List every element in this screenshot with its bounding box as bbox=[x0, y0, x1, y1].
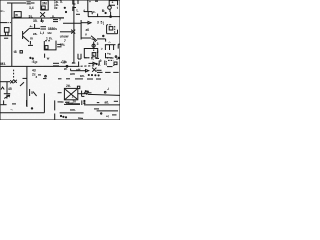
junction dot bbox=[110, 16, 112, 18]
dots bbox=[84, 93, 87, 95]
wire vertical x54.6 lower bbox=[54, 114, 56, 121]
bottom bus mid bold bbox=[60, 112, 84, 114]
dash bbox=[38, 74, 41, 76]
mid rail y104.8 right bbox=[84, 104, 120, 106]
lamp DS2 bbox=[92, 44, 95, 47]
capacitor C4 bbox=[28, 41, 33, 45]
dash bbox=[110, 57, 114, 59]
mark right edge pins bbox=[118, 44, 120, 48]
svg-text:t8: t8 bbox=[14, 50, 17, 54]
battery hook bbox=[115, 30, 118, 34]
svg-text:+: + bbox=[112, 1, 114, 5]
wire y23.2 center bbox=[63, 22, 81, 24]
wire center horizontal y17.8 bbox=[50, 17, 64, 19]
capacitor C6 trimmer bbox=[4, 94, 10, 99]
dot bbox=[45, 75, 47, 77]
wire horizontal junction bbox=[84, 11, 92, 13]
wire stub y22.5 bbox=[0, 22, 7, 24]
curve to switch bbox=[92, 39, 96, 42]
wire tick x99 bbox=[98, 61, 100, 66]
dashed rail right y72.3 bbox=[97, 71, 120, 73]
svg-text:M3.: M3. bbox=[1, 62, 7, 66]
arrow marks above dashed rail bbox=[89, 62, 98, 64]
wire horizontal rail y18 bbox=[12, 17, 64, 19]
bottom rail right y110.8 bbox=[97, 110, 118, 112]
svg-text:a0.: a0. bbox=[105, 101, 110, 105]
wire stub to bus bbox=[78, 62, 80, 67]
dash bbox=[88, 92, 92, 94]
ground bus dotted extension bbox=[81, 65, 96, 67]
dot bbox=[31, 108, 32, 109]
dot bbox=[101, 113, 102, 114]
blob c bbox=[20, 51, 22, 53]
wire tick x104.8 bbox=[104, 61, 106, 66]
label = right of box bbox=[57, 44, 61, 46]
wire tick x97.5 bbox=[97, 14, 99, 17]
svg-text:3,4: 3,4 bbox=[29, 6, 34, 10]
dots below bbox=[60, 115, 66, 118]
ground bus y66.3 bbox=[0, 65, 80, 67]
wire vertical corner x44.3 bbox=[43, 93, 45, 112]
pin mark 1 bbox=[77, 0, 79, 4]
wire top-right rail y16.5 bbox=[88, 16, 120, 18]
label +- near Q1 bbox=[30, 24, 35, 29]
wire y37.9 bbox=[81, 37, 91, 39]
transformer T2 box bbox=[44, 41, 56, 50]
svg-text:3886s: 3886s bbox=[48, 27, 57, 31]
svg-text:4p: 4p bbox=[40, 19, 44, 23]
transistor Q2 marks bbox=[45, 54, 50, 61]
pin mark r bbox=[73, 7, 76, 12]
svg-text:v: v bbox=[85, 32, 87, 36]
vertical bus x81 bbox=[80, 20, 82, 40]
dots row bbox=[88, 74, 99, 76]
wire vertical x81.7 bbox=[81, 100, 83, 105]
wire tick x41.5 bbox=[41, 19, 43, 22]
svg-text:uu: uu bbox=[48, 31, 52, 35]
dot bbox=[104, 91, 106, 93]
part list text stack bbox=[54, 0, 59, 10]
vertical bus x26.8 bbox=[26, 66, 28, 107]
dots pair bbox=[85, 91, 88, 93]
dash bbox=[112, 114, 117, 116]
svg-text:2: 2 bbox=[97, 50, 99, 54]
transformer T1 box top bbox=[41, 0, 48, 10]
svg-text:5.: 5. bbox=[60, 0, 63, 4]
wire y103.7 bbox=[66, 103, 80, 105]
svg-text:z: z bbox=[36, 75, 38, 79]
svg-text::5,p: :5,p bbox=[32, 60, 38, 64]
dots colon bbox=[84, 100, 85, 103]
connector J1 base bbox=[106, 53, 117, 58]
battery BT1 box bbox=[107, 25, 115, 34]
node dot bbox=[64, 7, 65, 8]
dot bbox=[65, 11, 66, 12]
dash bbox=[94, 108, 99, 110]
svg-text:w: w bbox=[46, 56, 50, 60]
svg-text:uH: uH bbox=[76, 68, 81, 72]
svg-text:+: + bbox=[89, 0, 91, 4]
svg-text:.:.: .:. bbox=[108, 40, 111, 44]
connector J1 pins bbox=[105, 45, 116, 50]
switch S2 blade bbox=[91, 36, 97, 41]
mark dash bbox=[61, 101, 64, 103]
svg-text:x,: x, bbox=[91, 56, 94, 60]
svg-text:+x: +x bbox=[107, 52, 111, 56]
ground symbol G1 bbox=[1, 100, 7, 104]
wire right of meter bbox=[78, 93, 84, 95]
dots bbox=[30, 57, 34, 59]
wire top-left horizontal bbox=[7, 2, 26, 4]
wire y35.6 bbox=[0, 35, 12, 37]
svg-text:c.: c. bbox=[93, 10, 96, 14]
dash left of bus bbox=[23, 77, 28, 79]
svg-text::: : bbox=[107, 56, 108, 60]
dash bbox=[96, 57, 100, 59]
wire vertical left bus upper bbox=[11, 3, 13, 66]
svg-text:za.: za. bbox=[33, 32, 37, 36]
crossed wires X2 bbox=[71, 30, 75, 34]
svg-text:45: 45 bbox=[8, 87, 12, 91]
crossed wires X5 bbox=[14, 80, 17, 83]
svg-text:a=: a= bbox=[72, 61, 76, 65]
pins u bbox=[78, 54, 81, 59]
svg-text:z6: z6 bbox=[86, 28, 90, 32]
svg-text:5%: 5% bbox=[60, 43, 65, 47]
svg-text:um: um bbox=[70, 72, 75, 76]
wire after X3 bbox=[96, 69, 101, 71]
dash bbox=[12, 103, 16, 105]
wire vertical x87.7 bbox=[87, 0, 89, 12]
dash bbox=[76, 13, 80, 15]
svg-text:5: 5 bbox=[31, 91, 33, 95]
svg-text:zn: zn bbox=[73, 100, 77, 104]
wire bold y31.7 bbox=[60, 31, 72, 33]
svg-text:3: 3 bbox=[97, 42, 99, 46]
ground marks gnd2 bbox=[26, 100, 28, 106]
dashes below meter bbox=[65, 101, 73, 105]
vertical bus x73.8 bbox=[73, 0, 75, 63]
wire dashed stub bbox=[8, 22, 12, 24]
wire hook down bbox=[105, 39, 107, 42]
junction dot on bus bbox=[66, 65, 68, 67]
dash left bbox=[97, 102, 100, 104]
wire hook down bbox=[91, 12, 93, 15]
dot bbox=[103, 35, 104, 36]
bottom bus left bold bbox=[0, 112, 44, 114]
svg-text:an.: an. bbox=[80, 74, 85, 78]
svg-text:3s,: 3s, bbox=[29, 14, 34, 18]
wire vertical x7 bbox=[6, 82, 8, 94]
dash bbox=[114, 100, 118, 102]
capacitor C3 plates bbox=[41, 27, 47, 29]
capacitor C2 plates bbox=[53, 18, 61, 22]
svg-text:3: 3 bbox=[97, 20, 99, 24]
relay K1 box bbox=[14, 12, 21, 18]
transistor Q3 bbox=[30, 89, 37, 96]
wire y81.6 left bbox=[0, 81, 10, 83]
meter M1 box bbox=[64, 88, 77, 99]
svg-text:2: 2 bbox=[72, 94, 74, 98]
wire y28.2 bbox=[29, 27, 40, 29]
svg-text:+\: +\ bbox=[106, 114, 109, 118]
terminal cluster bbox=[106, 57, 119, 67]
wire vertical x54.6 upper bbox=[54, 100, 56, 110]
mid rail y104.5 bold bbox=[64, 103, 80, 105]
svg-text:w.: w. bbox=[63, 67, 67, 71]
wire tick x110.5 bbox=[110, 12, 112, 17]
dashed rail y78.6 bbox=[43, 78, 101, 80]
svg-text:35.: 35. bbox=[33, 19, 38, 23]
svg-text:nm.: nm. bbox=[70, 108, 76, 112]
svg-text:?: ? bbox=[59, 18, 61, 22]
fuse F1 box top-right bbox=[109, 0, 117, 5]
svg-text:-i: -i bbox=[107, 87, 109, 91]
bottom rail 1 bbox=[88, 94, 120, 95]
relay K2 box bbox=[84, 49, 97, 58]
svg-text:(: ( bbox=[103, 21, 105, 25]
corner bracket bbox=[82, 91, 85, 97]
arrow wire mid bbox=[71, 69, 89, 72]
transistor Q1 bbox=[23, 29, 29, 42]
crossed wires X4 bbox=[10, 80, 13, 83]
svg-text:B:: B: bbox=[102, 9, 105, 13]
wire dashed vertical x13.5 bbox=[13, 70, 15, 80]
wire y38.8 bbox=[97, 38, 106, 40]
svg-text:unuw: unuw bbox=[60, 34, 69, 38]
svg-text:+.a=: +.a= bbox=[61, 61, 68, 65]
wire bbox=[31, 2, 35, 4]
svg-text:1 in.: 1 in. bbox=[46, 36, 53, 40]
dash y57.6 bbox=[84, 57, 90, 59]
pin mark L bbox=[73, 0, 76, 4]
crossed wires X bbox=[40, 12, 45, 17]
dash - bbox=[95, 0, 98, 2]
lamp DS1 bbox=[108, 6, 112, 10]
capacitor C1 bbox=[27, 2, 31, 4]
svg-text:0z: 0z bbox=[54, 6, 58, 10]
svg-text:=:-: =:- bbox=[1, 9, 5, 13]
dash right of vert bbox=[58, 101, 63, 103]
crossed wires X3 bbox=[92, 68, 96, 72]
svg-text:2ti.: 2ti. bbox=[66, 84, 71, 88]
svg-text:L: L bbox=[77, 9, 79, 13]
svg-text:t: t bbox=[117, 6, 119, 10]
svg-text:w: w bbox=[14, 13, 18, 17]
dot bbox=[105, 12, 106, 13]
dash bottom bbox=[78, 117, 83, 119]
wire lamp lead bbox=[109, 9, 111, 12]
svg-text:>: > bbox=[101, 47, 103, 51]
wire x93.6 drop bbox=[93, 42, 95, 49]
arrow wire right of bus bbox=[82, 21, 92, 24]
dash left of meter bbox=[58, 92, 62, 94]
microphone MK1 bbox=[4, 28, 9, 36]
capacitor C5 plates bbox=[53, 63, 59, 66]
dash below bbox=[4, 37, 8, 39]
svg-text:L,t: L,t bbox=[40, 31, 45, 35]
svg-text:3M: 3M bbox=[42, 2, 47, 6]
svg-text:4: 4 bbox=[83, 9, 85, 13]
mark meter corner bbox=[77, 86, 79, 88]
svg-text:-,: -, bbox=[11, 107, 13, 111]
wire diagonal to Q3 bbox=[20, 82, 24, 86]
wire drop to rail bbox=[87, 12, 89, 17]
mark caret bbox=[1, 87, 4, 90]
svg-text:m: m bbox=[30, 37, 33, 41]
